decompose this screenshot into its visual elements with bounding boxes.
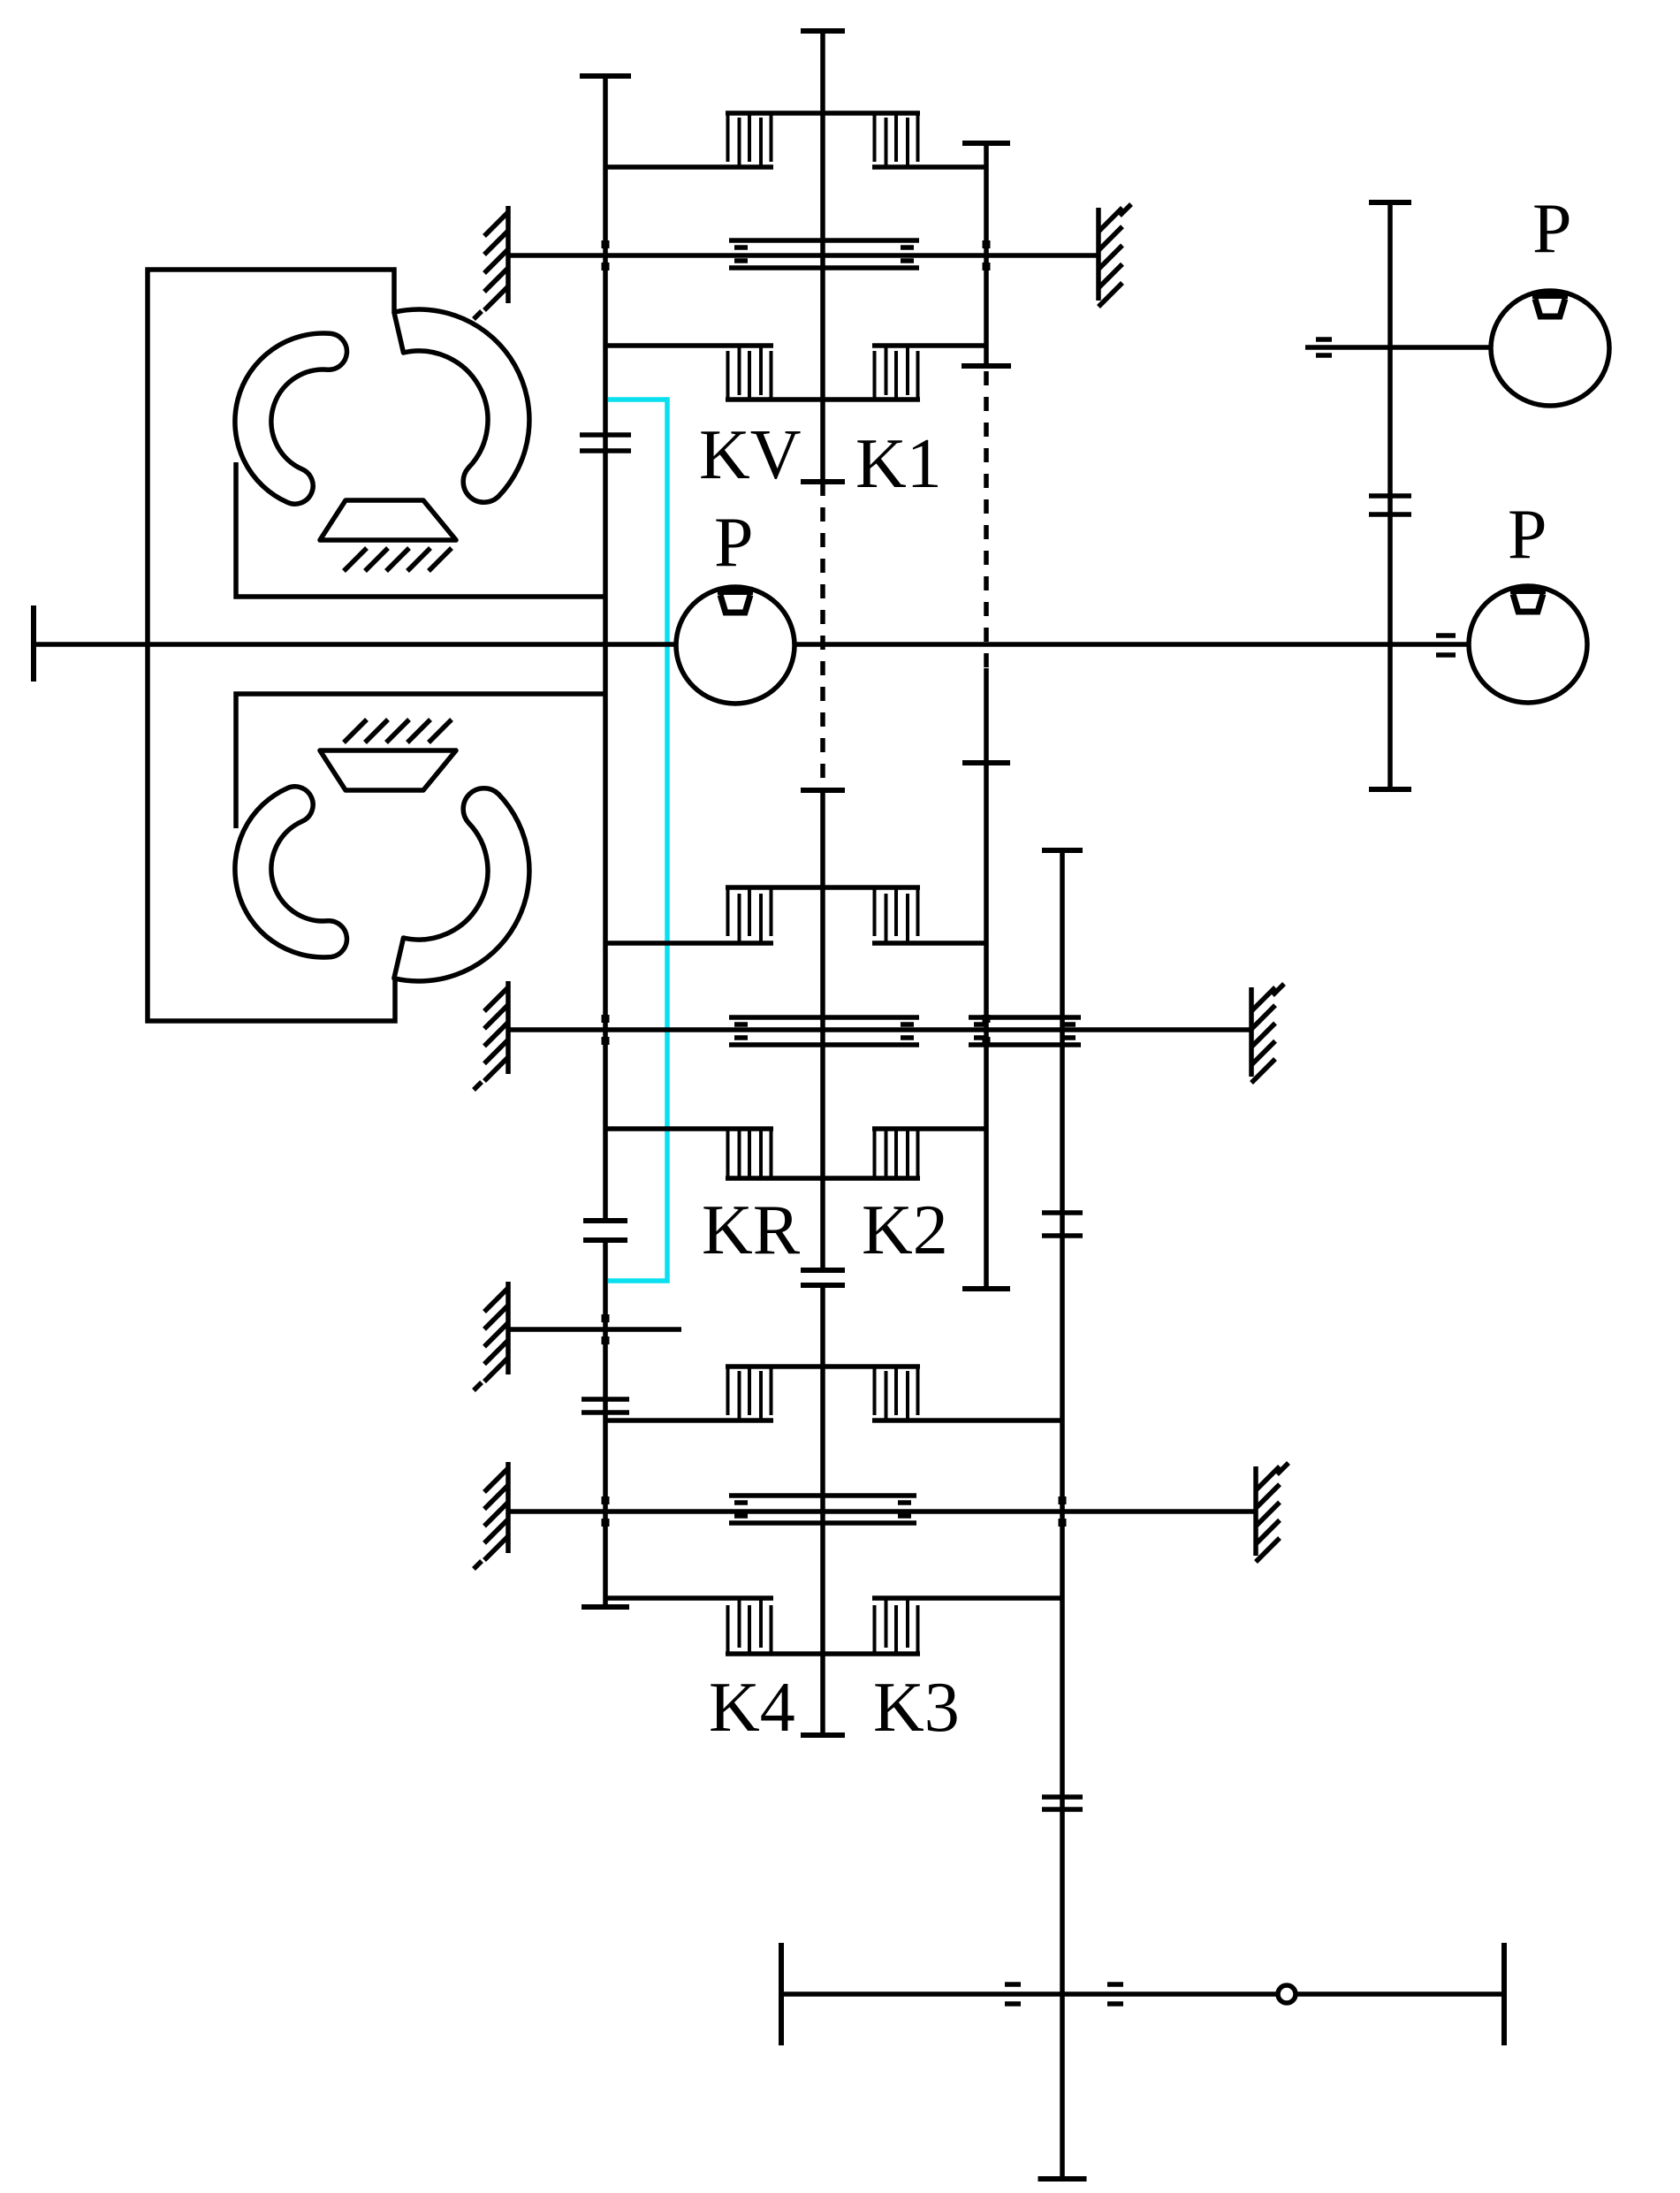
reverse idler shaft — [508, 1327, 681, 1332]
bearing marks right column at middle countershaft — [983, 1015, 991, 1023]
clutch KR/K2 upper halves — [726, 885, 920, 890]
torque converter impeller arc — [394, 309, 529, 502]
svg-text:K4: K4 — [709, 1669, 795, 1747]
spline marks on pump branch — [1316, 337, 1332, 342]
svg-text:K3: K3 — [873, 1669, 960, 1747]
bearing marks output column at bottom countershaft — [1059, 1496, 1067, 1504]
thrust disc on top countershaft — [729, 238, 919, 243]
torque converter turbine arc — [235, 333, 347, 504]
stator ground hatching — [344, 548, 367, 571]
clutch KR/K2 lower halves — [726, 1176, 920, 1181]
torque converter housing outer box — [148, 270, 395, 1021]
lower left column (reverse gear train) — [583, 1237, 627, 1243]
pump P upper right — [1491, 291, 1609, 406]
pump P on input shaft — [676, 587, 794, 704]
right pump drive shaft — [1369, 200, 1411, 205]
output shaft spline marks — [1005, 1982, 1021, 1987]
torque converter (top unit) — [235, 309, 604, 597]
torque converter turbine arc — [235, 787, 347, 957]
torque converter (bottom unit, mirrored) — [235, 694, 604, 981]
bearing marks turbine column at middle countershaft — [602, 1015, 610, 1023]
svg-text:K1: K1 — [855, 425, 942, 503]
ground wall left of bottom countershaft — [506, 1462, 511, 1553]
torque converter impeller arc — [394, 788, 529, 981]
svg-text:P: P — [1508, 496, 1547, 574]
joint on lower left column — [582, 1397, 629, 1402]
top countershaft — [508, 253, 1098, 258]
svg-text:KV: KV — [699, 416, 802, 494]
bottom countershaft — [508, 1509, 1256, 1514]
bearing marks lower left column at bottom countershaft — [602, 1496, 610, 1504]
upper pump drive branch — [1305, 345, 1491, 350]
cyan linkage line — [608, 400, 667, 1281]
ground wall left of top countershaft — [506, 206, 511, 303]
bearing marks right column at top countershaft — [983, 240, 991, 248]
thrust disc on bottom countershaft — [729, 1493, 916, 1498]
middle countershaft — [508, 1027, 1251, 1032]
clutch K4/K3 lower halves — [726, 1651, 920, 1656]
turbine shaft / converter output column — [580, 73, 631, 79]
joint on turbine shaft column — [580, 432, 631, 438]
clutch KV/K1 upper halves — [726, 110, 920, 116]
ground wall right of bottom countershaft — [1253, 1466, 1258, 1556]
clutch KV/K1 lower halves — [726, 397, 920, 402]
torque converter stator (one-way clutch to ground) — [320, 750, 456, 790]
spline marks before lower right pump — [1436, 633, 1456, 638]
stator ground hatching — [344, 720, 367, 742]
ground wall right of top countershaft — [1096, 208, 1101, 301]
thrust disc on middle countershaft (center) — [729, 1015, 919, 1020]
clutch K4/K3 upper halves — [726, 1364, 920, 1369]
converter inner housing box — [236, 694, 604, 828]
svg-text:K2: K2 — [862, 1192, 948, 1269]
pump P lower right — [1469, 586, 1587, 703]
output shaft — [781, 1991, 1504, 1997]
joints on output gear column — [1042, 1210, 1083, 1215]
converter inner housing box — [236, 462, 604, 597]
joint on right pump drive shaft — [1369, 493, 1411, 499]
bearing marks lower left column at idler shaft — [602, 1314, 610, 1322]
torque converter stator (one-way clutch to ground) — [320, 500, 456, 540]
ground wall left of idler shaft — [506, 1282, 511, 1374]
thrust disc on middle countershaft (right) — [969, 1015, 1081, 1020]
svg-text:KR: KR — [702, 1192, 801, 1269]
bearing marks turbine column at top countershaft — [602, 240, 610, 248]
output gear column — [1042, 848, 1083, 853]
center clutch column (engine input through clutches) — [801, 28, 845, 34]
right clutch column K1/K2 side — [962, 141, 1010, 146]
ground wall left of middle countershaft — [506, 981, 511, 1074]
ground wall right of middle countershaft — [1249, 987, 1254, 1077]
input shaft (main horizontal shaft) — [31, 605, 36, 682]
svg-text:P: P — [1532, 190, 1572, 268]
output shaft bearing circle — [1278, 1985, 1296, 2003]
svg-text:P: P — [714, 504, 754, 582]
